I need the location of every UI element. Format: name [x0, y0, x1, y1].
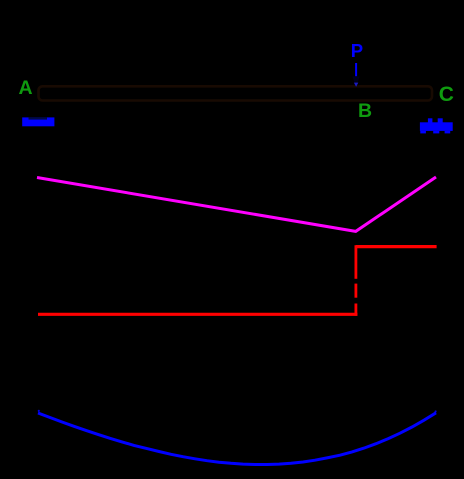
svg-text:C: C: [439, 83, 454, 106]
svg-text:B: B: [358, 100, 372, 122]
svg-text:P: P: [351, 40, 363, 61]
svg-text:A: A: [19, 77, 33, 99]
